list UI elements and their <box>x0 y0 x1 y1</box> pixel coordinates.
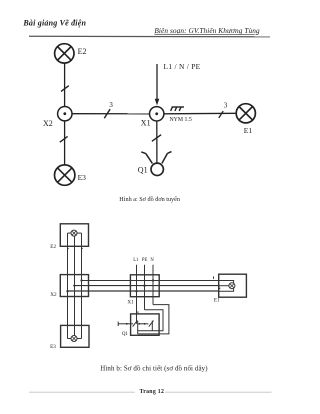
lamp E3 symbol <box>71 336 77 342</box>
wire X2 to X1 <box>72 113 150 115</box>
switched return wire inner loop <box>138 310 163 331</box>
svg-text:E3: E3 <box>78 173 87 182</box>
svg-text:NYM 1.5: NYM 1.5 <box>170 117 192 123</box>
junction box X2 <box>60 275 88 297</box>
wire E2 left conductor to X2 <box>67 233 69 275</box>
lamp E2 terminal wires <box>68 232 82 234</box>
outlet box E1 <box>219 274 247 297</box>
header rule <box>29 35 270 38</box>
lamp E2 symbol <box>71 230 77 236</box>
terminal dot at E1 box edge <box>218 285 220 287</box>
conductor slash on wire X2-E3 <box>60 136 68 142</box>
svg-text:Q1: Q1 <box>122 331 129 337</box>
svg-text:E3: E3 <box>50 344 56 350</box>
conductor slash on wire X1-E1 <box>219 111 223 118</box>
junction dots in X2 <box>66 279 82 292</box>
header author underline <box>154 33 258 35</box>
wire E2 to X2 <box>64 63 66 107</box>
supply feed wire L1/N/PE <box>156 64 158 100</box>
switched return wire outer loop <box>138 305 169 334</box>
svg-text:E2: E2 <box>50 244 56 250</box>
wire E2 right conductor to X2 <box>81 233 83 275</box>
outlet box E3 <box>61 325 89 347</box>
wire X1 to Q1 <box>156 121 158 163</box>
wires X2 down to E3 (three conductors) <box>68 275 82 339</box>
svg-text:PE: PE <box>142 258 148 263</box>
wire X2 to E3 <box>64 121 66 165</box>
svg-text:X1: X1 <box>141 119 151 128</box>
lamp E3 <box>54 165 74 185</box>
supply wire PE drop <box>144 265 146 310</box>
lamp E1 symbol <box>229 283 235 289</box>
svg-text:Hình a: Sơ đồ đơn tuyến: Hình a: Sơ đồ đơn tuyến <box>119 196 180 203</box>
bus wire top X2 to E1 <box>82 280 219 282</box>
junction box X2 <box>58 107 72 121</box>
svg-text:X2: X2 <box>50 292 57 298</box>
svg-text:Bài giảng Vẽ điện: Bài giảng Vẽ điện <box>22 19 86 28</box>
wire E2 middle conductor to X2 <box>74 236 76 275</box>
svg-text:X2: X2 <box>43 119 53 128</box>
svg-text:E1: E1 <box>244 126 253 135</box>
lamp E1 <box>236 104 255 123</box>
supply wire N drop <box>152 265 154 305</box>
conductor slash on wire X2-X1 <box>104 109 110 118</box>
svg-text:3: 3 <box>224 102 228 110</box>
terminal tick marks <box>67 247 220 313</box>
svg-text:E1: E1 <box>214 298 220 304</box>
wire X1 to E1 <box>164 112 236 115</box>
switch Q1 (two-gang switch symbol) <box>141 152 171 176</box>
svg-text:Trang 12: Trang 12 <box>140 389 165 395</box>
svg-text:E2: E2 <box>78 47 87 56</box>
switch Q1 contact dots <box>126 323 146 325</box>
lamp E1 connection wires <box>219 281 234 292</box>
conductor slash on wire E2-X2 <box>61 86 69 92</box>
svg-text:L1 / N / PE: L1 / N / PE <box>164 62 201 71</box>
switch Q1 contacts <box>118 321 153 334</box>
junction dots in X1 <box>135 279 154 292</box>
cable marking symbol <box>171 107 184 111</box>
svg-text:3: 3 <box>109 101 113 109</box>
lamp E2 <box>55 44 74 63</box>
outlet box E2 <box>60 224 88 247</box>
bus wire middle X2 to E1 <box>74 285 219 287</box>
svg-text:Biên soạn: GV.Thiên Khương Tùn: Biên soạn: GV.Thiên Khương Tùng <box>154 26 260 35</box>
conductor slash on wire X1-Q1 <box>152 135 161 142</box>
bus wire bottom X2 to E1 <box>68 290 219 292</box>
supply wire L1 drop to switch <box>136 265 138 324</box>
svg-text:L1: L1 <box>133 258 139 263</box>
junction box X1 <box>150 107 164 121</box>
footer rule left <box>29 391 135 393</box>
junction box X1 <box>130 275 159 297</box>
svg-text:Hình b: Sơ đồ chi tiết (sơ đồ: Hình b: Sơ đồ chi tiết (sơ đồ nối dây) <box>100 366 207 373</box>
lamp E3 terminal wires <box>68 338 82 340</box>
svg-text:N: N <box>150 258 154 263</box>
footer rule right <box>165 391 271 393</box>
supply arrow head <box>155 99 160 106</box>
svg-text:Q1: Q1 <box>138 166 148 175</box>
switch box Q1 <box>131 314 160 335</box>
svg-text:X1: X1 <box>127 299 134 305</box>
